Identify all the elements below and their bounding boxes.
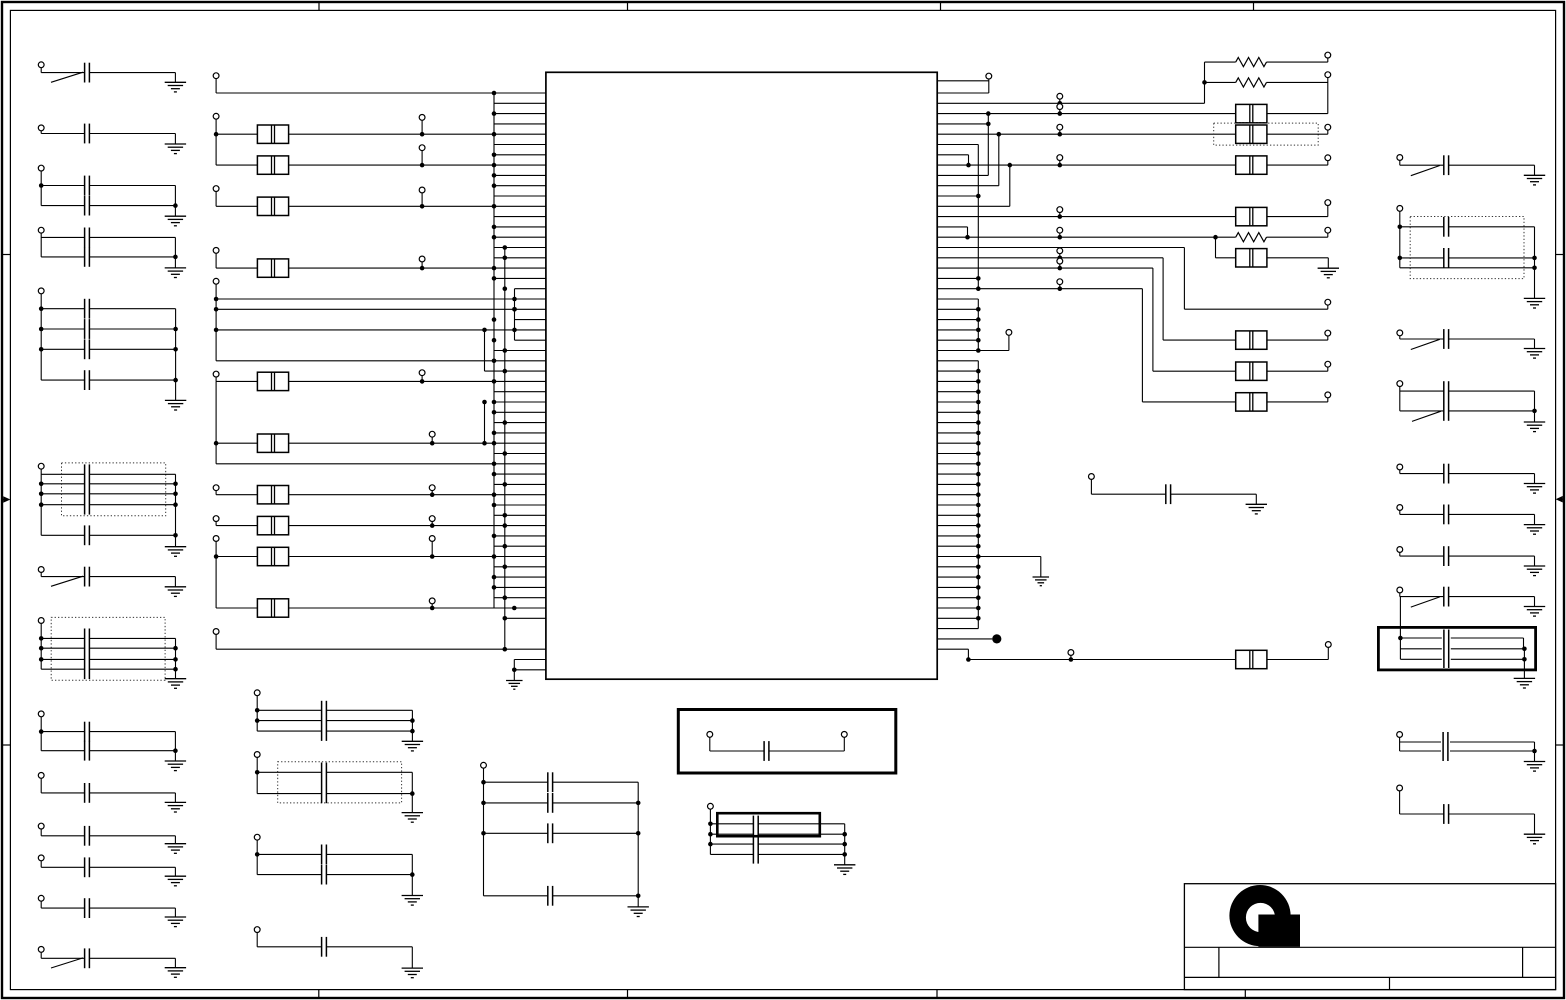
- connector pin: [1325, 299, 1331, 305]
- wire: [484, 895, 548, 897]
- junction: [492, 266, 497, 271]
- pin stub: [937, 525, 978, 527]
- ground of capacitor pair: [402, 896, 423, 906]
- junction: [255, 852, 260, 857]
- ground: [1524, 525, 1545, 535]
- wire: [1449, 226, 1535, 228]
- wire: [1327, 258, 1329, 268]
- ground of capacitor group: [628, 907, 649, 917]
- jumper vertical: [998, 134, 1000, 186]
- component outline (bold box): [1378, 627, 1535, 670]
- wire: [41, 473, 84, 475]
- wire: [937, 288, 1142, 290]
- connector pin: [1057, 124, 1063, 130]
- connector pin: [1006, 330, 1012, 336]
- bus vertical (left): [493, 93, 495, 608]
- junction: [1058, 163, 1063, 168]
- junction: [503, 255, 508, 260]
- connector pin: [1057, 155, 1063, 161]
- junction: [986, 122, 991, 127]
- wire: [257, 874, 321, 876]
- junction: [512, 606, 517, 611]
- pin stub: [937, 144, 978, 146]
- junction: [492, 132, 497, 137]
- ground of C1: [165, 82, 186, 92]
- connector pin C20: [38, 855, 44, 861]
- connector pin: [38, 711, 44, 717]
- wire: [326, 853, 412, 855]
- connector pin: [1325, 155, 1331, 161]
- jumper vertical: [988, 79, 990, 93]
- ground of capacitor bank: [402, 741, 423, 751]
- ground of C20: [165, 876, 186, 886]
- connector pin: [1397, 381, 1403, 387]
- wire: [1399, 211, 1401, 267]
- dotted group outline: [1214, 123, 1319, 145]
- junction: [1522, 647, 1527, 652]
- junction: [512, 307, 517, 312]
- connector pin: [1325, 72, 1331, 78]
- ferrite bead FB19: [1236, 650, 1267, 668]
- wire: [40, 829, 42, 836]
- pin stub: [937, 380, 978, 382]
- pin stub: [937, 401, 978, 403]
- connector pin: [429, 516, 435, 522]
- connector pin: [1397, 206, 1403, 212]
- wire: [1400, 813, 1444, 815]
- ferrite bead: [257, 434, 288, 452]
- wire: [1399, 791, 1401, 814]
- junction: [214, 328, 219, 333]
- dotted group outline: [1410, 217, 1524, 279]
- connector pin: [986, 73, 992, 79]
- pin stub: [937, 483, 978, 485]
- connector pin: [708, 803, 714, 809]
- wire: [1400, 267, 1535, 269]
- ferrite bead FB16: [1236, 249, 1267, 267]
- pin stub: [937, 205, 1010, 207]
- wire: [216, 360, 546, 362]
- wire: [1449, 410, 1535, 412]
- pin stub: [494, 257, 546, 259]
- junction: [492, 91, 497, 96]
- junction: [173, 482, 178, 487]
- pin stub: [937, 308, 978, 310]
- connector pin: [1325, 330, 1331, 336]
- wire: [41, 72, 84, 74]
- wire: [41, 637, 84, 639]
- wire: [1267, 257, 1328, 259]
- net vertical: [1183, 248, 1185, 310]
- connector pin: [1057, 207, 1063, 213]
- ground of C19: [165, 844, 186, 854]
- pin stub: [937, 174, 988, 176]
- junction: [255, 770, 260, 775]
- junction: [255, 718, 260, 723]
- connector pin: [429, 485, 435, 491]
- jumper vertical: [967, 227, 969, 237]
- junction: [1532, 256, 1537, 261]
- connector pin: [429, 536, 435, 542]
- wire: [89, 907, 175, 909]
- wire: [710, 833, 753, 835]
- connector pin: [419, 115, 425, 121]
- ground (right bus): [1033, 577, 1050, 586]
- pin stub: [937, 535, 978, 537]
- junction: [976, 431, 981, 436]
- junction: [492, 503, 497, 508]
- connector pin: [419, 256, 425, 262]
- wire: [89, 236, 175, 238]
- title block divider: [1184, 976, 1555, 978]
- wire: [1399, 552, 1401, 556]
- junction: [976, 575, 981, 580]
- connector pin: [213, 278, 219, 284]
- junction: [255, 708, 260, 713]
- wire: [41, 328, 84, 330]
- wire: [40, 901, 42, 908]
- pin stub: [494, 545, 546, 547]
- junction: [976, 565, 981, 570]
- wire: [421, 262, 423, 268]
- wire: [89, 647, 175, 649]
- wire: [1450, 741, 1535, 743]
- capacitor: [1444, 381, 1449, 401]
- pin stub: [937, 391, 978, 393]
- frame zone tick bottom: [627, 990, 629, 998]
- wire: [553, 895, 639, 897]
- pin stub: [485, 370, 546, 372]
- junction: [1058, 132, 1063, 137]
- wire: [41, 647, 84, 649]
- junction: [976, 492, 981, 497]
- wire: [937, 113, 1235, 115]
- net vertical: [1162, 258, 1164, 340]
- junction: [492, 410, 497, 415]
- wire: [758, 843, 845, 845]
- junction: [1069, 657, 1074, 662]
- junction: [636, 894, 641, 899]
- wire: [1400, 658, 1441, 660]
- wire: [1523, 649, 1525, 679]
- no-connect blob: [992, 634, 1001, 643]
- connector pin: [38, 165, 44, 171]
- pin stub: [494, 185, 546, 187]
- junction: [503, 565, 508, 570]
- connector pin: [1325, 642, 1331, 648]
- junction: [976, 348, 981, 353]
- pin stub: [937, 607, 978, 609]
- junction: [1398, 636, 1403, 641]
- junction: [1058, 214, 1063, 219]
- wire: [1267, 236, 1328, 238]
- ground of capacitor bank: [402, 813, 423, 823]
- pin stub: [937, 339, 978, 341]
- junction: [842, 832, 847, 837]
- pin stub: [937, 494, 978, 496]
- title block cell divider: [1389, 977, 1391, 989]
- wire: [1327, 58, 1329, 62]
- wire: [1267, 61, 1328, 63]
- wire: [1008, 335, 1010, 350]
- wire: [216, 380, 257, 382]
- wire: [1070, 655, 1072, 659]
- junction: [492, 534, 497, 539]
- pin stub: [937, 319, 978, 321]
- wire: [1059, 161, 1061, 166]
- junction: [503, 482, 508, 487]
- wire: [1400, 750, 1441, 752]
- capacitor: [1444, 248, 1449, 268]
- wire: [1400, 164, 1444, 166]
- ground: [1524, 349, 1545, 359]
- pin stub: [494, 422, 546, 424]
- wire: [257, 720, 321, 722]
- wire: [937, 102, 1204, 104]
- pin stub: [937, 648, 968, 650]
- junction: [430, 441, 435, 446]
- capacitor: [1444, 155, 1449, 175]
- junction: [492, 173, 497, 178]
- frame zone tick left: [2, 744, 10, 746]
- wire: [1400, 513, 1444, 515]
- wire: [431, 437, 433, 443]
- wire: [215, 192, 217, 207]
- wire: [1255, 494, 1257, 504]
- connector pin: [213, 516, 219, 522]
- junction: [976, 472, 981, 477]
- capacitor bank plates: [322, 763, 327, 804]
- wire: [215, 79, 217, 93]
- wire: [40, 717, 42, 751]
- pin stub: [937, 463, 978, 465]
- wire: [174, 908, 176, 917]
- junction: [410, 729, 415, 734]
- jumper vertical: [1009, 165, 1011, 206]
- wire: [89, 576, 175, 578]
- wire: [215, 541, 217, 608]
- junction: [708, 832, 713, 837]
- wire: [1059, 130, 1061, 134]
- wire: [41, 483, 84, 485]
- pin stub: [494, 226, 546, 228]
- junction: [512, 668, 517, 673]
- wire: [289, 525, 546, 527]
- pin stub: [937, 453, 978, 455]
- junction: [512, 307, 517, 312]
- capacitor C3: [85, 176, 90, 196]
- wire: [289, 494, 546, 496]
- wire: [1171, 493, 1257, 495]
- connector pin: [1068, 650, 1074, 656]
- junction: [976, 328, 981, 333]
- connector pin: [1325, 361, 1331, 367]
- junction: [503, 595, 508, 600]
- pin stub: [494, 453, 546, 455]
- ground (IC left): [506, 681, 523, 690]
- net vertical: [1152, 268, 1154, 371]
- wire: [483, 768, 485, 896]
- ground: [1524, 762, 1545, 772]
- connector pin: [1397, 505, 1403, 511]
- dotted group outline: [51, 617, 165, 680]
- junction: [966, 163, 971, 168]
- wire: [175, 474, 177, 546]
- wire: [1059, 233, 1061, 237]
- pin stub: [494, 473, 546, 475]
- wire: [937, 257, 1163, 259]
- wire: [215, 522, 217, 526]
- wire: [1090, 479, 1092, 494]
- jumper vertical: [967, 649, 969, 659]
- wire: [257, 771, 321, 773]
- wire: [216, 556, 257, 558]
- junction: [976, 606, 981, 611]
- junction: [214, 132, 219, 137]
- wire: [553, 802, 639, 804]
- wire: [484, 802, 548, 804]
- wire: [1400, 637, 1441, 639]
- capacitor: [1444, 587, 1449, 607]
- pin stub: [937, 556, 978, 558]
- pin stub: [494, 350, 546, 352]
- capacitor plates (tall): [753, 816, 758, 864]
- pin stub: [494, 504, 546, 506]
- wire: [769, 750, 844, 752]
- junction: [503, 513, 508, 518]
- wire: [1449, 813, 1535, 815]
- ground of FB16: [1318, 268, 1339, 278]
- wire: [758, 833, 845, 835]
- connector pin C11: [38, 567, 44, 573]
- wire: [41, 348, 84, 350]
- connector pin: [213, 536, 219, 542]
- wire: [89, 185, 175, 187]
- connector pin: [429, 598, 435, 604]
- wire: [89, 328, 175, 330]
- junction: [39, 306, 44, 311]
- wire: [431, 604, 433, 608]
- junction: [976, 420, 981, 425]
- junction: [503, 616, 508, 621]
- capacitor: [1444, 464, 1449, 484]
- capacitor: [1444, 505, 1449, 525]
- junction: [492, 183, 497, 188]
- wire: [40, 68, 42, 73]
- wire: [40, 294, 42, 380]
- junction: [503, 245, 508, 250]
- capacitor plates (tall): [1444, 630, 1449, 669]
- wire: [411, 772, 413, 812]
- ferrite bead FB14: [1236, 207, 1267, 225]
- junction: [492, 462, 497, 467]
- connector pin: [1057, 93, 1063, 99]
- ground of C30: [1246, 504, 1267, 514]
- frame zone tick right: [1556, 254, 1564, 256]
- junction: [420, 204, 425, 209]
- wire: [40, 778, 42, 793]
- pin stub: [494, 236, 546, 238]
- capacitor C22: [85, 948, 90, 968]
- wire: [175, 309, 177, 401]
- connector pin C22: [38, 947, 44, 953]
- wire: [174, 186, 176, 217]
- wire: [1449, 338, 1535, 340]
- wire: [937, 133, 1235, 135]
- ground of C5 C6: [165, 268, 186, 278]
- capacitor C6: [85, 247, 90, 267]
- wire: [1216, 257, 1236, 259]
- wire (pin feed down): [215, 381, 217, 463]
- wire: [1400, 226, 1444, 228]
- junction: [39, 657, 44, 662]
- connector pin: [1325, 200, 1331, 206]
- wire: [215, 119, 217, 165]
- wire: [1399, 470, 1401, 474]
- pin stub: [937, 92, 989, 94]
- pin stub: [937, 473, 978, 475]
- junction: [503, 451, 508, 456]
- junction: [976, 276, 981, 281]
- ferrite bead: [257, 372, 288, 390]
- wire: [411, 947, 413, 968]
- connector pin inside box: [707, 732, 713, 738]
- wire: [1216, 236, 1236, 238]
- connector pin: [213, 113, 219, 119]
- pin stub: [937, 195, 978, 197]
- connector pin: [1057, 279, 1063, 285]
- connector pin: [1397, 155, 1403, 161]
- junction: [976, 389, 981, 394]
- wire: [41, 236, 84, 238]
- dotted group outline: [278, 762, 402, 803]
- wire: [1399, 593, 1401, 597]
- junction: [976, 534, 981, 539]
- net vertical: [1327, 647, 1329, 659]
- capacitor C11: [85, 567, 90, 587]
- wire: [89, 72, 175, 74]
- wire: [216, 92, 546, 94]
- ferrite bead FB11: [1236, 104, 1267, 122]
- wire: [289, 556, 546, 558]
- connector pin C2: [38, 125, 44, 131]
- capacitor: [548, 793, 553, 813]
- bus vertical (right S2): [977, 299, 979, 351]
- wire: [326, 874, 412, 876]
- wire: [1400, 648, 1441, 650]
- frame zone tick bottom: [936, 990, 938, 998]
- pin stub: [494, 247, 546, 249]
- pin stub: [937, 226, 967, 228]
- jumper vertical: [968, 155, 970, 165]
- wire: [1400, 596, 1444, 598]
- connector pin: [1089, 474, 1095, 480]
- wire: [1399, 160, 1401, 165]
- junction: [173, 255, 178, 260]
- junction: [976, 513, 981, 518]
- pin stub: [494, 195, 546, 197]
- wire: [1400, 555, 1444, 557]
- ferrite bead: [1236, 362, 1267, 380]
- capacitor: [1444, 329, 1449, 349]
- junction: [965, 235, 970, 240]
- pin stub: [494, 113, 546, 115]
- pin stub: [937, 360, 978, 362]
- wire: [216, 267, 257, 269]
- pin stub: [937, 504, 978, 506]
- wire: [978, 556, 1041, 558]
- wire: [1449, 555, 1535, 557]
